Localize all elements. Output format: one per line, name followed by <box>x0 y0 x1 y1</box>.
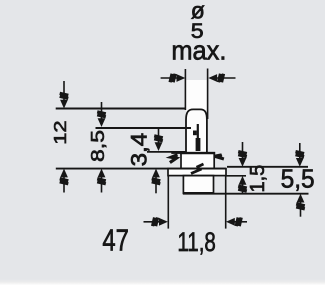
svg-text:1,5: 1,5 <box>247 165 269 193</box>
svg-text:11,8: 11,8 <box>177 227 215 257</box>
svg-text:5,5: 5,5 <box>281 165 315 194</box>
svg-text:12: 12 <box>51 120 70 144</box>
svg-text:47: 47 <box>102 223 129 258</box>
svg-text:8,5: 8,5 <box>88 130 108 162</box>
svg-text:max.: max. <box>171 35 226 66</box>
svg-text:3,4: 3,4 <box>127 133 152 167</box>
